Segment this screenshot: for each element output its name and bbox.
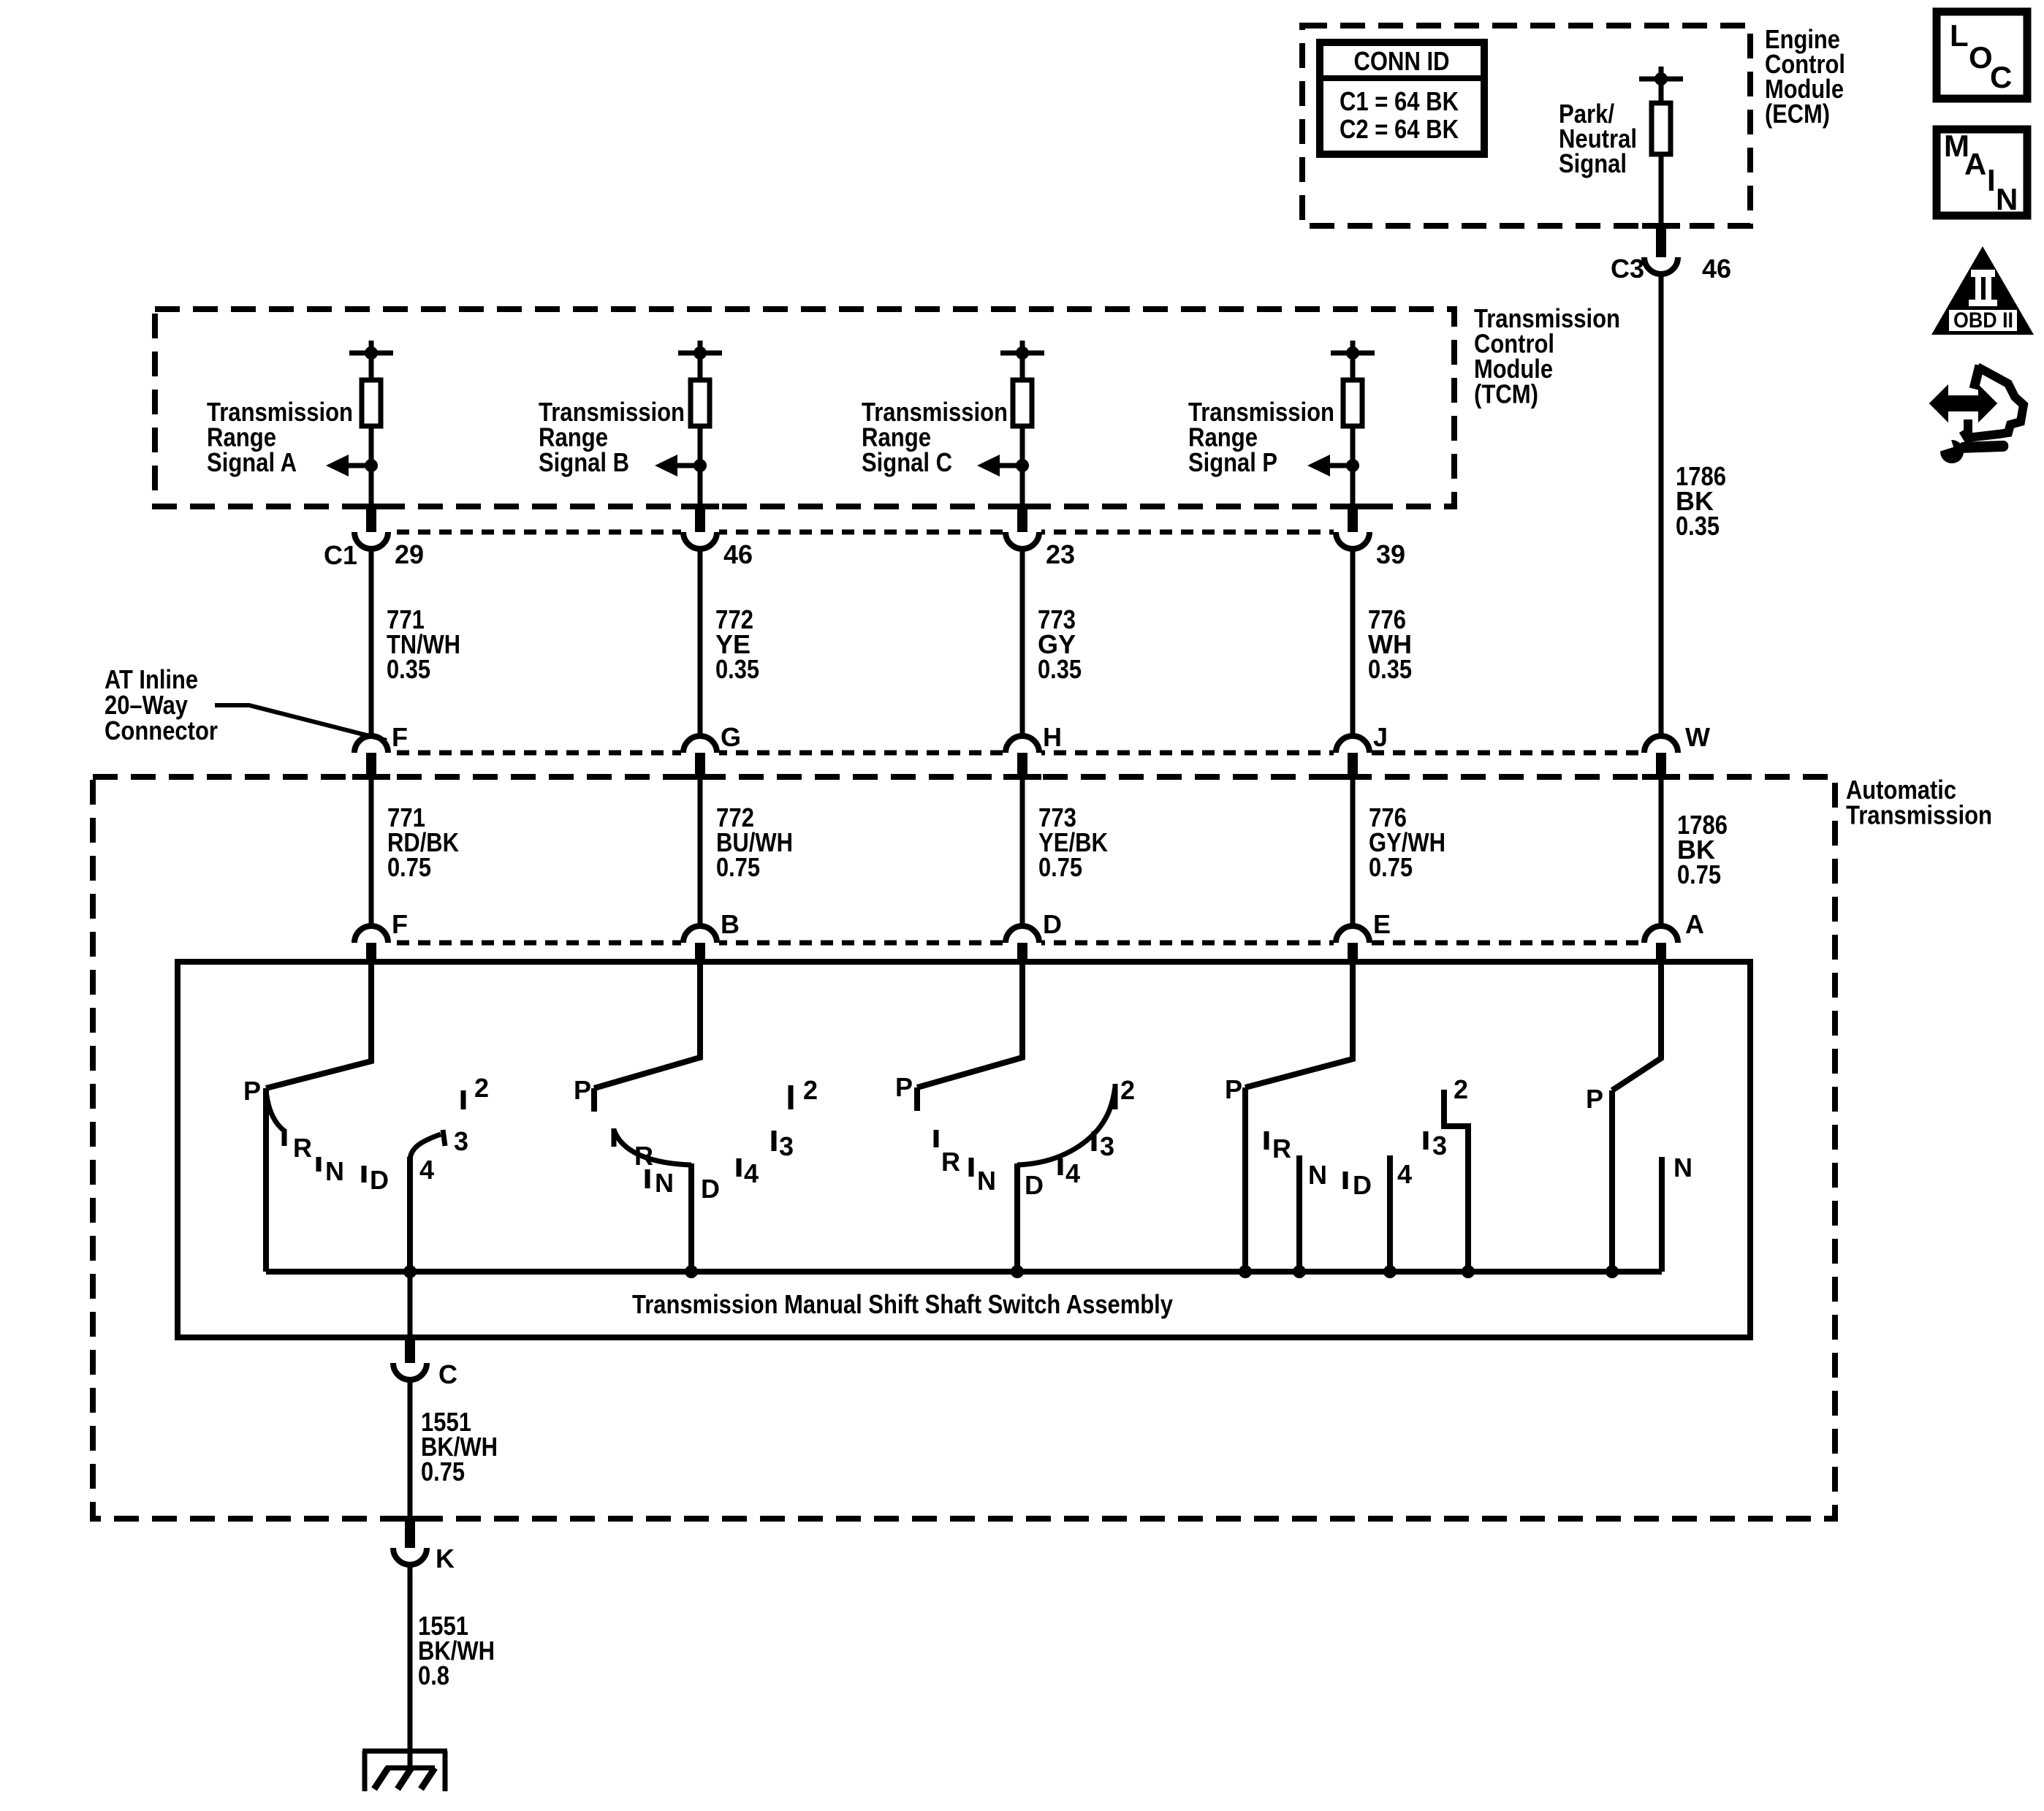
svg-text:Signal: Signal	[1559, 148, 1627, 178]
switch group C wiper D-4-3-2 to common	[1011, 1075, 1135, 1278]
svg-text:L: L	[1950, 18, 1969, 53]
switch group C: P contact	[895, 1072, 917, 1111]
label Transmission Control Module (TCM)	[1474, 303, 1620, 409]
svg-text:0.8: 0.8	[418, 1660, 449, 1690]
svg-text:R: R	[293, 1133, 312, 1163]
switch group B wiper R-N-D to common	[614, 1128, 720, 1278]
transmission connector terminal D	[1006, 909, 1062, 963]
connector masks	[352, 525, 1680, 950]
wire into switch group B	[594, 963, 700, 1088]
inline connector terminal G	[683, 722, 741, 779]
transmission connector dotted row	[354, 941, 1644, 946]
svg-text:F: F	[392, 909, 408, 939]
svg-text:CONN ID: CONN ID	[1354, 46, 1450, 76]
svg-text:A: A	[1685, 909, 1704, 939]
connector C1 pin 29	[354, 508, 424, 569]
svg-text:0.35: 0.35	[387, 654, 430, 684]
wire 776 WH	[1350, 549, 1356, 736]
switch group P: 2 contact jog to common	[1444, 1074, 1475, 1278]
svg-text:0.75: 0.75	[1677, 859, 1721, 889]
svg-text:A: A	[1964, 147, 1986, 181]
LOC icon	[1937, 12, 2027, 99]
switch group P: 4 line to common	[1383, 1155, 1412, 1278]
leader line to inline connector	[215, 705, 387, 740]
signal arrow C	[977, 455, 1029, 477]
wire label 1551 BK/WH 0.8	[418, 1611, 495, 1690]
switch group N: P contact line to common	[1586, 1084, 1619, 1278]
label Transmission Range Signal B	[539, 397, 685, 477]
svg-text:P: P	[1586, 1084, 1603, 1114]
resistor R2 pull-up TCM signal B	[678, 341, 722, 506]
svg-text:D: D	[1043, 909, 1062, 939]
signal arrow P	[1307, 455, 1359, 477]
TCM C1 connector dotted row	[354, 530, 1369, 535]
inline connector terminal H	[1006, 722, 1062, 779]
svg-text:Transmission Manual Shift Shaf: Transmission Manual Shift Shaft Switch A…	[632, 1289, 1173, 1319]
transmission connector terminal E	[1336, 909, 1391, 963]
connector C1 pin 46	[683, 508, 753, 569]
svg-text:P: P	[1225, 1074, 1242, 1104]
inline connector terminal F	[354, 722, 408, 779]
svg-text:K: K	[436, 1544, 455, 1573]
Automatic Transmission dashed box	[93, 777, 1835, 1519]
wire label 772 YE 0.35	[715, 604, 759, 684]
svg-text:W: W	[1685, 722, 1710, 752]
signal arrow A	[326, 455, 378, 477]
inline connector terminal J	[1336, 722, 1388, 779]
switch assembly box	[178, 962, 1750, 1337]
connector K	[393, 1520, 455, 1573]
MAIN icon	[1937, 129, 2027, 216]
svg-text:R: R	[1272, 1134, 1291, 1163]
wire 772 BU/WH	[698, 779, 703, 926]
dashed line crossing patches	[352, 226, 1680, 1519]
switch group P: N line to common	[1293, 1155, 1327, 1278]
wire label 1551 BK/WH 0.75	[421, 1407, 498, 1487]
svg-text:2: 2	[474, 1073, 489, 1103]
label Transmission Range Signal P	[1188, 397, 1334, 477]
wire 771 TN/WH	[369, 549, 374, 736]
label Automatic Transmission	[1846, 775, 1992, 830]
svg-text:0.35: 0.35	[1038, 654, 1082, 684]
svg-text:B: B	[721, 909, 740, 939]
wire 1786 BK 0.35	[1659, 274, 1664, 736]
svg-text:0.75: 0.75	[1038, 852, 1082, 882]
switch group A contacts R N D	[293, 1133, 389, 1195]
switch group A: 4-3 wiper to common	[403, 1073, 489, 1278]
svg-text:0.35: 0.35	[1676, 511, 1720, 541]
svg-text:N: N	[325, 1156, 344, 1186]
wire label 1786 BK 0.35	[1676, 461, 1726, 541]
svg-text:N: N	[1996, 182, 2018, 216]
C1 connector label	[324, 540, 357, 570]
svg-text:2: 2	[1454, 1074, 1468, 1104]
service icon arrows + wrench	[1932, 365, 2024, 463]
svg-text:46: 46	[723, 539, 753, 569]
switch group C contacts R N	[936, 1130, 996, 1196]
ECM dashed box	[1302, 26, 1750, 226]
wire 776 GY/WH	[1350, 779, 1356, 926]
svg-text:C1: C1	[324, 540, 357, 570]
switch group N: N line	[1662, 1153, 1692, 1272]
wire 773 GY	[1020, 549, 1025, 736]
wire label 773 YE/BK 0.75	[1038, 802, 1108, 882]
wire 772 YE	[698, 549, 703, 736]
svg-text:I: I	[1987, 163, 1996, 197]
wire 1551 BK/WH 0.75	[408, 1380, 413, 1519]
connector C1 pin 39	[1336, 508, 1405, 569]
svg-text:(ECM): (ECM)	[1765, 99, 1830, 129]
switch group A: P contact and wiper	[243, 1076, 285, 1272]
wire label 776 WH 0.35	[1368, 604, 1412, 684]
label Transmission Manual Shift Shaft Switch Assembly	[632, 1289, 1173, 1319]
svg-text:4: 4	[744, 1158, 759, 1188]
svg-text:C: C	[1990, 60, 2012, 94]
svg-text:23: 23	[1046, 539, 1075, 569]
wire 1786 BK 0.75	[1659, 779, 1664, 926]
wire label 771 RD/BK 0.75	[387, 802, 459, 882]
svg-text:0.75: 0.75	[1369, 852, 1413, 882]
OBD II icon	[1931, 246, 2034, 335]
wire 773 YE/BK	[1020, 779, 1025, 926]
svg-text:Connector: Connector	[105, 715, 218, 745]
switch group P: P contact line to common	[1225, 1074, 1252, 1278]
svg-text:D: D	[1353, 1170, 1372, 1200]
svg-text:(TCM): (TCM)	[1474, 379, 1538, 409]
switch group B contacts 4 3 2	[739, 1075, 818, 1188]
svg-text:F: F	[392, 722, 408, 752]
wire label 772 BU/WH 0.75	[716, 802, 793, 882]
connector C1 pin 23	[1006, 508, 1075, 569]
wire into switch group N	[1612, 963, 1661, 1090]
wire 771 RD/BK	[369, 779, 374, 926]
svg-text:3: 3	[454, 1126, 468, 1156]
label Transmission Range Signal C	[862, 397, 1008, 477]
svg-text:C2 = 64 BK: C2 = 64 BK	[1340, 114, 1459, 144]
label Engine Control Module (ECM)	[1765, 24, 1845, 129]
svg-text:0.75: 0.75	[421, 1457, 465, 1487]
svg-text:N: N	[655, 1168, 674, 1198]
svg-text:Signal C: Signal C	[862, 447, 952, 477]
svg-text:29: 29	[395, 539, 424, 569]
svg-text:P: P	[895, 1072, 913, 1102]
svg-text:0.35: 0.35	[715, 654, 759, 684]
resistor R3 pull-up TCM signal C	[1000, 341, 1044, 506]
svg-text:P: P	[243, 1076, 261, 1106]
svg-text:Signal B: Signal B	[539, 447, 629, 477]
label AT Inline 20-Way Connector	[105, 664, 218, 745]
switch common bus	[266, 1269, 1662, 1275]
svg-text:0.35: 0.35	[1368, 654, 1412, 684]
connector C3 pin 46	[1611, 227, 1731, 284]
transmission connector terminal A	[1644, 909, 1704, 963]
resistor R4 pull-up TCM signal P	[1331, 341, 1375, 506]
wire label 1786 BK 0.75	[1677, 810, 1728, 889]
svg-text:C3: C3	[1611, 254, 1644, 284]
svg-text:E: E	[1373, 909, 1391, 939]
svg-text:4: 4	[1065, 1158, 1080, 1188]
CONN ID table	[1320, 42, 1484, 154]
label Transmission Range Signal A	[207, 397, 353, 477]
svg-text:C: C	[438, 1359, 457, 1389]
svg-text:N: N	[1308, 1160, 1327, 1190]
svg-text:O: O	[1969, 40, 1993, 75]
wire label 776 GY/WH 0.75	[1369, 802, 1445, 882]
svg-text:Transmission: Transmission	[1846, 800, 1992, 830]
svg-text:H: H	[1043, 722, 1062, 752]
ground symbol	[362, 1751, 447, 1791]
svg-text:Signal A: Signal A	[207, 447, 297, 477]
svg-text:OBD II: OBD II	[1953, 308, 2013, 333]
wire into switch group P	[1245, 963, 1353, 1087]
svg-text:4: 4	[419, 1155, 434, 1185]
svg-text:N: N	[977, 1166, 996, 1196]
connector C	[393, 1339, 457, 1389]
svg-text:39: 39	[1376, 539, 1405, 569]
svg-text:C1 = 64 BK: C1 = 64 BK	[1340, 86, 1459, 116]
svg-text:N: N	[1673, 1153, 1692, 1182]
svg-text:2: 2	[803, 1075, 818, 1105]
svg-text:D: D	[1025, 1170, 1044, 1200]
svg-text:D: D	[701, 1174, 720, 1204]
ECM park/neutral resistor	[1639, 67, 1683, 226]
switch group P contacts R D 3	[1266, 1131, 1447, 1200]
wire into switch group A	[266, 963, 371, 1088]
switch group B: P contact	[574, 1075, 594, 1112]
svg-text:Signal P: Signal P	[1188, 447, 1277, 477]
wire into switch group C	[917, 963, 1022, 1087]
wire common to connector C	[408, 1272, 413, 1337]
svg-text:3: 3	[779, 1131, 794, 1161]
svg-text:G: G	[721, 722, 741, 752]
wire label 771 TN/WH 0.35	[387, 604, 460, 684]
transmission connector terminal B	[683, 909, 740, 963]
transmission connector terminal F	[354, 909, 408, 963]
svg-text:2: 2	[1120, 1075, 1135, 1105]
svg-text:P: P	[574, 1075, 591, 1105]
resistor R1 pull-up TCM signal A	[349, 341, 393, 506]
svg-text:3: 3	[1432, 1131, 1447, 1161]
svg-text:0.75: 0.75	[387, 852, 431, 882]
inline connector terminal W	[1644, 722, 1710, 779]
label Park/Neutral Signal	[1559, 99, 1637, 178]
svg-text:0.75: 0.75	[716, 852, 760, 882]
svg-text:3: 3	[1100, 1131, 1114, 1161]
signal arrow B	[655, 455, 707, 477]
svg-text:4: 4	[1397, 1159, 1412, 1189]
svg-text:D: D	[370, 1165, 389, 1195]
20-way inline connector dotted row	[354, 751, 1644, 756]
TCM dashed box	[155, 309, 1454, 506]
svg-text:J: J	[1373, 722, 1388, 752]
svg-text:46: 46	[1702, 254, 1731, 284]
wire label 773 GY 0.35	[1038, 604, 1082, 684]
wire 1551 BK/WH 0.8	[408, 1565, 413, 1768]
svg-text:R: R	[941, 1147, 960, 1177]
